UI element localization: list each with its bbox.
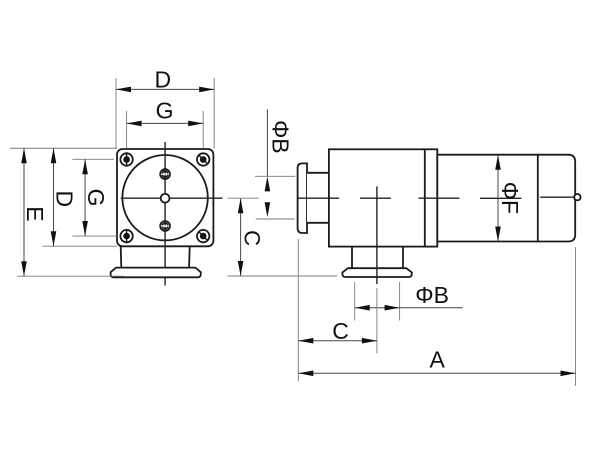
- side view main body: [329, 149, 437, 246]
- dimension D horizontal: extension lines: [116, 78, 214, 148]
- dimension C left: line and arrows: [238, 198, 244, 276]
- dimension PhiB left: line and arrows: [265, 109, 271, 217]
- dimension G horizontal: line and arrows: [127, 121, 204, 127]
- dimension PhiB bottom: extension lines: [355, 282, 400, 321]
- center hole: [161, 194, 170, 203]
- dimension D vertical: extension line bottom: [42, 245, 117, 247]
- dimension C left: top extension line: [228, 197, 259, 199]
- dimension D horizontal: line and arrows: [116, 87, 214, 93]
- side view flange (left port): [298, 163, 307, 233]
- front view large circle: [122, 155, 207, 240]
- dimension A: line and arrows: [298, 371, 575, 377]
- dimension E vertical: line and arrows: [21, 148, 27, 276]
- side view centerline in motor left part: [480, 197, 521, 199]
- corner screw bottom-right: [197, 230, 209, 242]
- dimension D vertical: line and arrows: [51, 148, 57, 246]
- dimension C bottom: extension lines: [298, 239, 377, 381]
- svg-text:D: D: [51, 190, 77, 207]
- front bottom port neck: [121, 246, 190, 267]
- svg-text:ΦF: ΦF: [497, 182, 523, 214]
- dimension E vertical: extension lines: [10, 148, 124, 276]
- dimension PhiB left: extension lines: [255, 176, 295, 219]
- dimension G horizontal: extension lines: [127, 111, 204, 148]
- svg-text:C: C: [332, 318, 349, 344]
- side view bottom port rim flange: [342, 268, 411, 277]
- side view centerline motor right part: [540, 196, 574, 198]
- dimension A: right extension line: [575, 247, 577, 386]
- side view body center cross horizontal: [360, 197, 391, 199]
- dimension G vertical: line and arrows: [82, 159, 88, 236]
- bolt bottom on centerline: [160, 221, 170, 231]
- corner screw bottom-left: [120, 229, 132, 243]
- svg-text:A: A: [430, 346, 446, 372]
- dimension PhiF: line and arrows: [495, 155, 501, 242]
- front view vertical centerline: [164, 142, 166, 286]
- front view square flange body: [117, 149, 213, 246]
- svg-text:C: C: [240, 230, 265, 246]
- dimension G vertical: extension lines: [72, 159, 117, 236]
- svg-text:D: D: [154, 67, 171, 93]
- svg-text:ΦB: ΦB: [268, 120, 294, 154]
- side view left port neck: [307, 173, 329, 223]
- svg-text:E: E: [22, 206, 48, 221]
- motor divider line: [537, 155, 539, 242]
- motor shaft circle: [574, 194, 580, 200]
- front bottom port rim flange: [111, 268, 201, 278]
- dimension C bottom: line and arrows: [298, 338, 377, 344]
- svg-text:ΦB: ΦB: [415, 282, 449, 308]
- svg-text:G: G: [156, 98, 174, 124]
- side view body/plate divider: [424, 149, 426, 246]
- side view bottom port neck: [352, 247, 403, 269]
- side view bottom port vertical centerline: [376, 187, 378, 285]
- corner screw top-left: [120, 152, 132, 166]
- dimension PhiB bottom: line and arrows: [355, 305, 463, 311]
- motor housing: [437, 155, 575, 242]
- front view horizontal centerline: [121, 197, 223, 199]
- side view port centerline through flange: [298, 197, 339, 199]
- bolt top on centerline: [160, 169, 170, 179]
- side view centerline across body right edge: [419, 197, 460, 199]
- dimension C left: bottom extension line: [228, 275, 337, 277]
- corner screw top-right: [197, 153, 209, 165]
- svg-text:G: G: [83, 189, 109, 207]
